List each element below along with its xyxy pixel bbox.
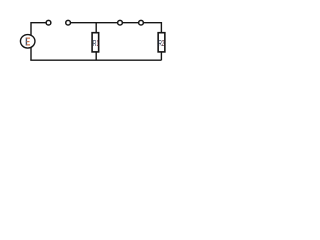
switch SA1 right terminal (open gap between) [66, 20, 71, 25]
svg-text:2: 2 [162, 38, 165, 48]
resistor R1 body [92, 33, 99, 52]
wire R1 leads (vertical through R1) [95, 23, 97, 61]
resistor R2 body [158, 33, 165, 52]
wire top rail: switch1 right terminal to switch2 right terminal [68, 22, 141, 24]
source label E: bottom bar [27, 44, 30, 45]
source label E: top bar [27, 38, 30, 39]
wire bottom rail [30, 59, 161, 61]
source label E: vertical stroke [26, 38, 27, 46]
wire left branch: top-left corner and vertical through source [31, 23, 49, 61]
source label E: middle bar [27, 41, 30, 42]
wire right branch: top-right corner and R2 leads [140, 23, 161, 61]
switch SA2 left terminal [118, 20, 123, 25]
voltage source E1 circle [20, 35, 35, 49]
switch SA2 right terminal (closed link) [139, 20, 144, 25]
switch SA1 left terminal [46, 20, 51, 25]
svg-text:1: 1 [97, 38, 99, 48]
